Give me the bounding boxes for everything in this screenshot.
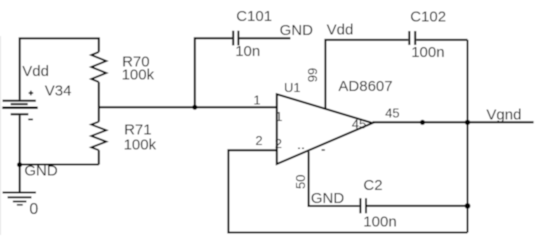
svg-text:Vgnd: Vgnd <box>486 106 521 123</box>
svg-text:10n: 10n <box>235 43 260 60</box>
svg-text:2: 2 <box>255 133 262 148</box>
svg-text:GND: GND <box>24 162 58 179</box>
svg-text:45: 45 <box>352 116 366 131</box>
svg-text:1: 1 <box>253 93 260 108</box>
svg-text:GND: GND <box>280 22 314 39</box>
svg-text:2: 2 <box>275 136 282 151</box>
svg-text:100k: 100k <box>124 136 157 153</box>
svg-text:C101: C101 <box>236 8 272 25</box>
svg-text:Vdd: Vdd <box>327 21 354 38</box>
svg-text:U1: U1 <box>284 80 301 95</box>
svg-text:50: 50 <box>293 175 308 189</box>
svg-text:C102: C102 <box>410 9 446 26</box>
svg-text:V34: V34 <box>45 82 72 99</box>
svg-text:GND: GND <box>311 190 345 207</box>
svg-text:99: 99 <box>305 68 320 82</box>
svg-text:100n: 100n <box>363 214 396 231</box>
svg-text:AD8607: AD8607 <box>338 78 392 95</box>
svg-text:100n: 100n <box>411 44 444 61</box>
svg-text:100k: 100k <box>122 67 155 84</box>
svg-text:C2: C2 <box>363 177 382 194</box>
svg-text:Vdd: Vdd <box>22 63 49 80</box>
svg-text:1: 1 <box>275 109 282 124</box>
svg-text:45: 45 <box>385 106 399 121</box>
svg-text:0: 0 <box>29 201 38 218</box>
